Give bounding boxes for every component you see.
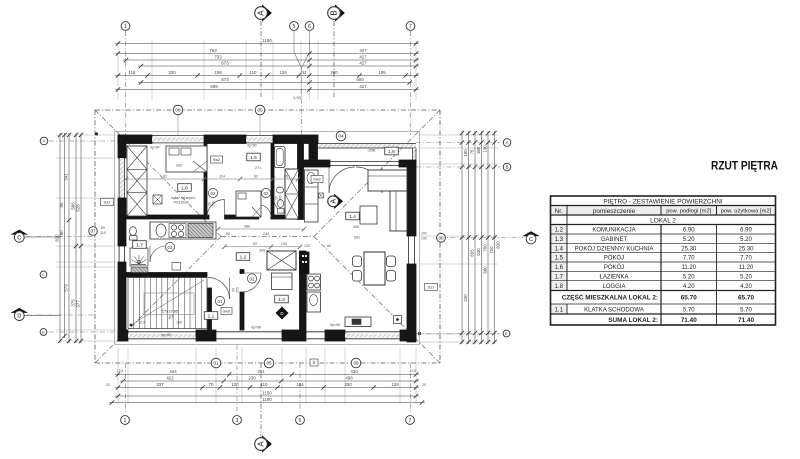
grid axis 7 vertical — [410, 31, 412, 414]
svg-text:65.70: 65.70 — [681, 295, 697, 302]
fridge black block — [300, 252, 310, 274]
svg-text:1: 1 — [124, 418, 127, 424]
svg-text:01: 01 — [213, 361, 219, 366]
svg-text:LOKAL 2: LOKAL 2 — [650, 217, 676, 224]
svg-text:1.1: 1.1 — [208, 313, 215, 319]
svg-text:B: B — [506, 165, 509, 170]
column marker living room — [319, 193, 324, 198]
tv sideboard — [345, 317, 371, 327]
grid circle A left — [40, 137, 48, 145]
svg-text:110: 110 — [250, 70, 258, 75]
svg-text:5: 5 — [293, 24, 296, 30]
door height labels rotated — [208, 195, 283, 293]
interior dim texts living — [304, 225, 360, 248]
svg-text:185: 185 — [378, 70, 386, 75]
grid circle 7 top — [406, 22, 415, 31]
svg-text:390: 390 — [176, 164, 182, 168]
outer insulation contour — [115, 132, 420, 345]
window in bottom wall 3 — [306, 332, 325, 339]
exterior wall left segment 2 — [118, 198, 126, 246]
svg-text:Sz1: Sz1 — [428, 285, 436, 290]
room label 1.8 — [385, 147, 399, 155]
svg-text:82: 82 — [163, 174, 167, 178]
svg-text:82: 82 — [253, 242, 257, 246]
svg-text:3: 3 — [236, 418, 239, 424]
grid axis 3 vertical (bottom) — [236, 345, 238, 414]
grid circle E left — [40, 329, 47, 336]
svg-text:200: 200 — [236, 287, 240, 293]
section flag C right — [522, 231, 540, 244]
door number circle 03 corridor — [165, 242, 174, 251]
svg-text:118: 118 — [129, 70, 137, 75]
svg-text:381: 381 — [354, 236, 360, 240]
svg-text:427: 427 — [359, 48, 367, 53]
svg-text:09: 09 — [353, 361, 359, 366]
bathroom 1.7 toilet — [130, 227, 138, 240]
roof hip diagonal top-left — [95, 110, 221, 237]
svg-text:5.20: 5.20 — [683, 274, 695, 280]
svg-text:120: 120 — [231, 382, 239, 387]
svg-text:1.4: 1.4 — [349, 214, 356, 220]
wall corner node dot right — [418, 332, 421, 335]
grid axis B horizontal (right) — [416, 166, 500, 168]
svg-text:180: 180 — [463, 149, 468, 157]
svg-text:7: 7 — [409, 418, 412, 424]
exterior wall right upper — [407, 164, 416, 236]
interior spine wall upper — [298, 144, 304, 220]
gabinet desk — [272, 273, 293, 290]
svg-text:1.1: 1.1 — [555, 307, 564, 313]
bed room 1.5 — [236, 191, 261, 217]
area table — [551, 196, 776, 325]
svg-text:528: 528 — [76, 204, 81, 212]
grid axis 5 vertical — [294, 31, 302, 414]
dimension chain bottom row 444/251/430 — [115, 369, 419, 377]
detail circle 05 — [255, 105, 265, 135]
svg-text:733: 733 — [214, 55, 222, 60]
roof outline dashed rectangle — [95, 110, 440, 363]
svg-text:168: 168 — [214, 70, 222, 75]
svg-text:698: 698 — [210, 84, 218, 89]
svg-text:wyłaz na strych: wyłaz na strych — [171, 196, 194, 200]
attic hatch label room 1.6 — [153, 195, 195, 205]
svg-text:5.70: 5.70 — [683, 307, 695, 313]
svg-text:C: C — [529, 237, 533, 243]
loggia wall pier right — [399, 160, 416, 167]
detail diamond D interior — [276, 307, 289, 320]
svg-text:pow. użytkowa [m2]: pow. użytkowa [m2] — [721, 209, 772, 215]
detail circle 04 — [336, 131, 346, 141]
exterior wall bottom pier 3 — [282, 330, 306, 341]
grid circle 1 top — [121, 22, 130, 31]
wardrobe room 1.6 — [127, 146, 147, 216]
dimension chain top row 698/427 — [115, 84, 419, 92]
extension lines bottom — [118, 347, 416, 404]
svg-text:5.20: 5.20 — [740, 237, 752, 243]
top small dim 6,50 — [293, 96, 300, 100]
svg-text:1.8: 1.8 — [388, 149, 395, 155]
svg-text:130: 130 — [281, 242, 287, 246]
wall block grid6 corner — [309, 144, 318, 161]
svg-text:hp=90: hp=90 — [251, 325, 261, 329]
door arc bathroom 1.7 — [150, 246, 166, 262]
svg-text:70x120cm: 70x120cm — [173, 201, 189, 205]
door arc staircase — [208, 278, 230, 300]
exterior wall bottom pier 2 — [196, 330, 216, 341]
right dim lines cluster — [460, 131, 497, 344]
exterior wall right lower — [407, 264, 416, 342]
grid circle 7 bottom — [406, 416, 415, 425]
svg-text:Sw2: Sw2 — [213, 158, 220, 162]
svg-text:05: 05 — [257, 108, 263, 114]
left dim line 780 — [59, 133, 67, 338]
loggia window/door — [330, 162, 399, 166]
window tag 5m5 staircase — [221, 308, 232, 315]
svg-text:4.20: 4.20 — [683, 284, 695, 290]
room label 1.6 — [178, 184, 192, 192]
svg-text:fg=90: fg=90 — [150, 146, 159, 150]
svg-text:A: A — [257, 441, 266, 447]
staircase right wall — [208, 288, 212, 330]
svg-text:fg=90: fg=90 — [247, 144, 256, 148]
svg-text:Nr.: Nr. — [555, 208, 563, 215]
room label 1.7 — [133, 241, 147, 249]
detail circle 00 right — [437, 233, 446, 242]
svg-text:POKÓJ: POKÓJ — [604, 264, 624, 271]
svg-text:80: 80 — [226, 232, 230, 236]
svg-text:110: 110 — [261, 382, 269, 387]
double door arcs living room — [329, 167, 382, 193]
svg-text:700: 700 — [483, 244, 488, 252]
svg-text:200: 200 — [344, 382, 352, 387]
drawing title RZUT PIETRA — [711, 159, 778, 173]
bathroom 1.7 shower fan lines — [131, 255, 147, 265]
svg-text:4.20: 4.20 — [740, 284, 752, 290]
toilet middle bathroom — [278, 200, 285, 214]
svg-text:300: 300 — [259, 249, 265, 253]
exterior wall top-middle pier — [204, 135, 246, 144]
svg-text:RZUT PIĘTRA: RZUT PIĘTRA — [711, 159, 778, 173]
svg-text:458: 458 — [345, 376, 353, 381]
svg-text:82: 82 — [327, 244, 331, 248]
door arc room 1.6 — [207, 200, 225, 218]
dimension chain top row 673/427 — [138, 61, 419, 69]
loggia outer edge right — [412, 148, 416, 164]
svg-text:230: 230 — [421, 237, 427, 241]
door number circle 02 room 1.5 — [261, 188, 270, 197]
svg-text:5: 5 — [299, 418, 302, 424]
svg-text:12,5: 12,5 — [410, 369, 417, 373]
svg-text:444: 444 — [169, 369, 177, 374]
svg-text:1.4: 1.4 — [555, 246, 564, 252]
svg-text:1.3: 1.3 — [278, 297, 285, 303]
svg-text:190: 190 — [483, 145, 488, 153]
left dim line 341/579 — [64, 133, 72, 343]
bed room 1.6 — [166, 146, 207, 172]
svg-text:65.70: 65.70 — [738, 295, 754, 302]
exterior wall left segment 1 — [118, 135, 126, 158]
svg-text:01: 01 — [218, 299, 223, 304]
roof hip diagonal bottom-left — [95, 237, 221, 364]
svg-text:1190: 1190 — [262, 397, 272, 402]
small dims near circle 00 — [421, 232, 427, 241]
window tag Sw2 living — [311, 176, 323, 183]
left dim line 528/377 — [76, 133, 84, 343]
svg-text:60: 60 — [101, 226, 105, 230]
left label box Sz1 — [101, 199, 114, 206]
svg-text:5.70: 5.70 — [740, 307, 752, 313]
dimension chain top row 733/427 — [123, 55, 419, 63]
svg-text:1150: 1150 — [262, 391, 272, 396]
svg-text:1.5: 1.5 — [250, 155, 257, 161]
grid axis C horizontal — [26, 237, 523, 238]
bathtub middle bathroom — [275, 147, 286, 168]
svg-text:200: 200 — [212, 201, 216, 207]
bottom axis circles 01 05 09 — [211, 358, 361, 368]
svg-text:1.7: 1.7 — [136, 242, 143, 248]
room label 1.5 — [247, 153, 261, 161]
dimension chain bottom row detail segments — [115, 382, 419, 390]
dimension chain top row 1190 — [115, 38, 419, 46]
section flag D left — [11, 308, 61, 321]
section flag A interior — [328, 194, 343, 209]
dimension chain top row 763/427 — [115, 48, 419, 56]
gabinet left wall upper stub — [240, 270, 244, 274]
loggia wall pier left — [301, 160, 330, 167]
roof hip diagonal top-right — [314, 110, 440, 237]
interior dim chain bedrooms — [124, 174, 300, 181]
svg-text:1.5: 1.5 — [555, 256, 564, 262]
window in bottom wall 4 — [345, 332, 400, 339]
svg-text:85: 85 — [284, 174, 288, 178]
room label 1.1 — [204, 312, 218, 320]
dimension chain bottom row 1190 — [109, 397, 425, 405]
svg-text:128: 128 — [391, 382, 399, 387]
grid circle 1 bottom — [121, 416, 130, 425]
detail circle 06 — [173, 105, 183, 135]
svg-text:380: 380 — [244, 224, 250, 228]
svg-text:02: 02 — [264, 191, 269, 196]
kitchen annex counter — [150, 222, 216, 239]
interior wall under bedrooms left part — [126, 215, 209, 219]
svg-text:05: 05 — [266, 361, 272, 366]
svg-text:11.20: 11.20 — [739, 265, 754, 271]
svg-text:180: 180 — [476, 146, 481, 154]
svg-text:780: 780 — [59, 230, 64, 238]
svg-text:A: A — [506, 140, 509, 145]
window in left wall upper — [119, 158, 125, 198]
door arc room 1.5 — [259, 205, 271, 217]
svg-text:B: B — [330, 10, 339, 15]
washbasin middle bathroom — [276, 187, 283, 193]
staircase treads — [134, 278, 202, 329]
extension lines right — [420, 135, 498, 342]
interior dim texts room 1.6 — [176, 164, 261, 171]
svg-text:427: 427 — [359, 55, 367, 60]
svg-text:pomieszczenie: pomieszczenie — [593, 208, 636, 215]
grid circle 5 top — [290, 22, 299, 31]
svg-text:1: 1 — [124, 24, 127, 30]
room label 1.3 — [275, 295, 289, 303]
door number circle 02 gabinet — [247, 274, 256, 283]
door number circle 01 staircase — [215, 296, 224, 305]
bathroom washbasin small — [172, 263, 181, 271]
svg-text:7: 7 — [409, 24, 412, 30]
extension lines top — [118, 41, 416, 101]
left dim line 586/375 — [71, 133, 79, 343]
section line A-A vertical — [260, 21, 262, 437]
dimension chain top row 673/400 — [138, 77, 413, 85]
svg-text:6.90: 6.90 — [683, 228, 695, 234]
shaft X-hatch near bathroom — [285, 169, 299, 219]
staircase inner landing rect — [144, 293, 194, 315]
svg-text:80: 80 — [59, 202, 64, 207]
interior wall under bedrooms right part — [271, 215, 298, 219]
room label 1.4 — [346, 212, 360, 220]
dimension chain top row detail segments — [115, 70, 419, 78]
svg-text:07: 07 — [90, 229, 96, 234]
svg-text:230: 230 — [248, 376, 256, 381]
svg-text:189: 189 — [176, 321, 182, 325]
kitchen counter strip living room — [305, 170, 319, 222]
svg-text:E: E — [505, 331, 508, 336]
svg-text:LOGGIA: LOGGIA — [602, 284, 625, 290]
svg-text:377: 377 — [76, 300, 81, 308]
svg-text:680: 680 — [483, 266, 488, 274]
svg-text:27: 27 — [169, 315, 174, 320]
window in bottom wall 1 — [128, 332, 196, 339]
svg-text:25.30: 25.30 — [738, 246, 754, 252]
svg-text:03: 03 — [168, 245, 173, 250]
window in bottom wall 2 — [216, 332, 282, 339]
svg-text:02: 02 — [250, 276, 255, 281]
coffee table living room — [360, 206, 377, 224]
svg-text:673: 673 — [221, 61, 229, 66]
svg-text:126: 126 — [279, 70, 287, 75]
grid circle 5 bottom — [296, 416, 305, 425]
section line B-B vertical — [333, 21, 335, 97]
grid axis A horizontal — [49, 141, 500, 143]
svg-text:82: 82 — [254, 174, 258, 178]
svg-text:820: 820 — [496, 241, 501, 249]
svg-text:114: 114 — [219, 174, 225, 178]
window W2 in top wall — [246, 136, 273, 143]
door number circle 02 room 1.6 — [208, 188, 217, 197]
svg-text:244: 244 — [263, 232, 269, 236]
section flag A bottom — [255, 435, 272, 452]
svg-text:KLATKA SCHODOWA: KLATKA SCHODOWA — [584, 307, 644, 313]
svg-text:1.7: 1.7 — [555, 274, 564, 280]
svg-text:POKÓJ DZIENNY/ KUCHNIA: POKÓJ DZIENNY/ KUCHNIA — [575, 245, 654, 252]
extension lines left — [56, 135, 116, 341]
section flag A top — [255, 4, 272, 21]
exterior wall top-left pier — [118, 135, 152, 144]
svg-text:pow. podłogi [m2]: pow. podłogi [m2] — [666, 209, 712, 215]
dining chairs — [353, 256, 396, 281]
svg-text:5.20: 5.20 — [740, 274, 752, 280]
gabinet left wall lower — [240, 292, 244, 330]
svg-text:1.2: 1.2 — [240, 254, 247, 260]
svg-text:720: 720 — [489, 246, 494, 254]
svg-text:71.40: 71.40 — [681, 317, 697, 324]
kitchen sink living room — [307, 292, 321, 312]
door arc gabinet 1.3 — [242, 273, 261, 292]
grid circle 3 bottom — [233, 416, 242, 425]
grid axis E horizontal — [49, 332, 500, 334]
svg-text:427: 427 — [359, 84, 367, 89]
grid circle B right — [503, 163, 511, 171]
svg-text:-296: -296 — [367, 148, 376, 153]
roof corner node dot — [95, 132, 98, 135]
svg-text:408: 408 — [353, 225, 359, 229]
loggia outer edge top — [318, 144, 416, 148]
sill height labels — [150, 144, 340, 337]
svg-text:SUMA LOKAL 2:: SUMA LOKAL 2: — [608, 317, 658, 324]
svg-text:ŁAZIENKA: ŁAZIENKA — [599, 274, 628, 280]
right dim labels — [463, 145, 501, 302]
svg-text:PIĘTRO - ZESTAWIENIE POWIERZCH: PIĘTRO - ZESTAWIENIE POWIERZCHNI — [603, 198, 723, 205]
svg-text:02: 02 — [211, 191, 216, 196]
grid circle C left — [40, 271, 47, 278]
svg-text:GABINET: GABINET — [601, 237, 628, 243]
interior dim chain corridor — [216, 224, 306, 252]
svg-text:422: 422 — [166, 376, 174, 381]
svg-text:430: 430 — [350, 369, 358, 374]
svg-text:KOMUNIKACJA: KOMUNIKACJA — [592, 228, 635, 234]
svg-text:20: 20 — [422, 383, 426, 387]
section flag C left — [11, 230, 61, 243]
svg-text:11.20: 11.20 — [681, 265, 696, 271]
svg-text:341: 341 — [64, 173, 69, 181]
roof ridge line — [221, 236, 314, 238]
svg-text:C: C — [17, 235, 21, 241]
sofa living room — [368, 170, 407, 231]
svg-text:1.2: 1.2 — [555, 228, 564, 234]
svg-text:200: 200 — [279, 195, 283, 201]
interior spine wall lower — [300, 251, 307, 330]
svg-text:25.30: 25.30 — [681, 246, 697, 252]
svg-text:230: 230 — [463, 294, 468, 302]
grid circle 6 top — [305, 22, 314, 31]
svg-text:Sw5: Sw5 — [223, 310, 230, 314]
section flag B top — [328, 4, 345, 21]
exterior wall top-right pier — [273, 135, 318, 144]
room label 1.2 — [236, 253, 250, 261]
svg-text:110: 110 — [100, 231, 106, 235]
interior wall above staircase — [126, 273, 207, 278]
window in right wall — [409, 236, 415, 264]
svg-text:Sw2: Sw2 — [313, 178, 320, 182]
bottom corner small dims 12.5/20 — [106, 369, 426, 387]
svg-text:7.70: 7.70 — [683, 256, 695, 262]
grid circle E right — [503, 330, 510, 337]
window W1 in top wall — [152, 136, 204, 143]
left dim line 820 — [55, 133, 63, 343]
kitchen hob living room — [307, 274, 321, 290]
svg-text:400: 400 — [356, 77, 364, 82]
svg-text:763: 763 — [209, 48, 217, 53]
interior wall under bedrooms middle part — [225, 215, 259, 219]
svg-text:630: 630 — [476, 248, 481, 256]
wardrobe X-box in corridor — [267, 251, 296, 270]
svg-text:POKÓJ: POKÓJ — [604, 255, 624, 262]
svg-text:337: 337 — [156, 382, 164, 387]
staircase direction line — [130, 280, 204, 326]
svg-text:200: 200 — [168, 70, 176, 75]
svg-text:06: 06 — [175, 108, 181, 114]
svg-text:5.20: 5.20 — [683, 237, 695, 243]
svg-text:Sz1: Sz1 — [104, 200, 112, 205]
